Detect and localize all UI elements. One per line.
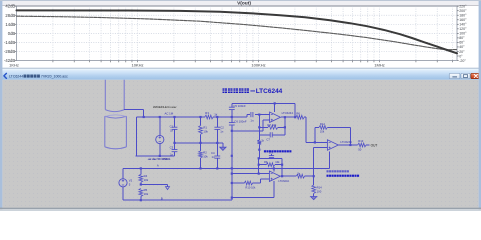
svg-text:100°: 100° — [459, 32, 467, 36]
annotation: differential to single-ended — [264, 150, 292, 152]
wire: top bus to C9 into U1 inverting input — [247, 114, 270, 118]
resistor R10 (U2 + input series) — [244, 181, 256, 189]
svg-text:1n: 1n — [170, 152, 174, 156]
svg-text:1MHz: 1MHz — [374, 63, 384, 68]
svg-text:10k: 10k — [203, 155, 208, 159]
capacitor C4 — [211, 143, 220, 169]
battery cell BT2 (lower cylinder) — [105, 115, 127, 149]
svg-text:50: 50 — [358, 147, 362, 151]
svg-text:220°: 220° — [459, 5, 467, 9]
wire: U2 non-inverting input — [253, 179, 270, 183]
svg-text:1n: 1n — [250, 118, 254, 122]
schematic title annotation (opamp LTC6244) — [223, 88, 283, 95]
wire: U2 inverting input bus — [231, 173, 270, 175]
battery cell BT1 (upper cylinder) — [105, 80, 124, 112]
resistor R1 — [199, 117, 209, 143]
svg-text:R9: R9 — [264, 160, 268, 164]
svg-text:1n: 1n — [211, 155, 215, 159]
wire: U1 output — [281, 116, 296, 118]
voltage source V2 — [119, 168, 133, 200]
svg-text:140°: 140° — [459, 23, 467, 27]
resistor R8 (bias to fb box) — [257, 138, 264, 158]
wire: U1 non-inverting bias — [231, 120, 270, 132]
svg-text:10k: 10k — [203, 129, 208, 133]
resistor R3 (series, top bus) — [205, 111, 218, 119]
svg-text:1n: 1n — [170, 129, 174, 133]
V1 value label (wavefile) — [153, 105, 177, 115]
svg-text:120°: 120° — [459, 27, 467, 31]
wire: U1 out to U3 inverting input — [304, 117, 327, 143]
voltage source V1 — [156, 117, 164, 156]
svg-text:180°: 180° — [459, 14, 467, 18]
resistor R9 (U2 feedback) — [264, 160, 280, 167]
capacitor C7 (U1 feedback) — [259, 132, 285, 141]
wire: R14 to ground — [313, 193, 315, 196]
svg-text:-28dB: -28dB — [4, 49, 15, 54]
svg-text:.ac dec 50 10MEG: .ac dec 50 10MEG — [148, 157, 171, 161]
svg-text:C3: C3 — [170, 146, 174, 150]
capacitor C6 100nF — [229, 120, 247, 157]
ground (output load) — [311, 197, 317, 200]
capacitor C3 — [170, 143, 178, 156]
resistor R11 (U2 output series) — [296, 171, 304, 178]
svg-text:R6: R6 — [296, 112, 300, 116]
op-amp U3 LTC6244 — [327, 140, 352, 150]
svg-text:1KHz: 1KHz — [9, 63, 19, 68]
svg-text:R7 10k: R7 10k — [267, 123, 276, 127]
wire: rail to R10 — [231, 182, 245, 184]
svg-text:80°: 80° — [459, 36, 465, 40]
op-amp U1 LTC6244 — [270, 111, 294, 123]
net label B on bottom bus — [161, 196, 163, 200]
svg-text:LTC6244: LTC6244 — [278, 179, 289, 183]
resistor R13 (output series) — [358, 139, 366, 151]
svg-text:14dB: 14dB — [5, 22, 15, 27]
svg-text:R13: R13 — [358, 139, 364, 143]
wire: bottom return bus — [123, 197, 274, 202]
svg-text:0°: 0° — [459, 54, 463, 58]
node OUT — [366, 144, 377, 148]
svg-text:20°: 20° — [459, 50, 465, 54]
wire: U2 output — [280, 175, 296, 177]
svg-text:200°: 200° — [459, 9, 467, 13]
vertical rail with decoupling caps — [231, 103, 233, 200]
node junctions on top bus — [143, 116, 233, 118]
svg-text:10k: 10k — [144, 178, 149, 182]
net label A on V- rail — [157, 164, 159, 168]
op-amp U2 LTC6244 — [269, 171, 289, 183]
svg-text:WAVEFILE=in.wav: WAVEFILE=in.wav — [153, 105, 177, 109]
svg-text:C7: C7 — [266, 138, 270, 142]
svg-text:-14dB: -14dB — [4, 40, 15, 45]
wire: U3 feedback — [315, 127, 352, 146]
resistor R12 (U3 feedback) — [319, 122, 327, 134]
annotation: single-ended output — [327, 170, 360, 177]
resistor R6 (U1 output series) — [296, 112, 304, 120]
wire: U3 output — [338, 144, 357, 146]
svg-text:A: A — [157, 164, 159, 168]
resistor R7 (U1 feedback) — [267, 123, 278, 129]
wire: V1 bottom to C3 node — [136, 155, 175, 157]
svg-text:R3: R3 — [205, 111, 209, 115]
svg-text:C6 100nF: C6 100nF — [234, 120, 247, 124]
svg-text:10k: 10k — [144, 192, 149, 196]
svg-text:160°: 160° — [459, 18, 467, 22]
wire: U1 feedback network — [258, 115, 286, 140]
svg-text:42dB: 42dB — [5, 4, 15, 9]
svg-text:LTC6244: LTC6244 — [340, 140, 352, 144]
spice directive .ac — [148, 157, 171, 161]
wire: U2 power pins — [273, 167, 275, 197]
wire: to summing node — [305, 175, 315, 177]
svg-text:40°: 40° — [459, 45, 465, 49]
wire: V- rail (long horizontal) — [123, 167, 330, 169]
svg-text:1n: 1n — [220, 129, 224, 133]
wire: U2 feedback box — [258, 157, 284, 177]
svg-text:LTC6244: LTC6244 — [256, 88, 283, 95]
svg-text:60°: 60° — [459, 41, 465, 45]
capacitor C5 100nF — [229, 104, 246, 110]
svg-text:R12: R12 — [320, 122, 325, 126]
svg-text:10k: 10k — [320, 130, 325, 134]
svg-text:7VR20_1000.asc: 7VR20_1000.asc — [41, 75, 68, 79]
capacitor C1 — [170, 117, 178, 143]
wire: supply rail to U1 — [232, 102, 295, 117]
svg-text:28dB: 28dB — [5, 13, 15, 18]
svg-text:LTC6244: LTC6244 — [282, 111, 294, 115]
svg-text:AC 1M: AC 1M — [165, 112, 174, 116]
capacitor C9 (input coupling) — [250, 112, 254, 122]
svg-text:100: 100 — [317, 189, 322, 193]
capacitor C2 — [214, 117, 224, 143]
svg-text:0dB: 0dB — [8, 31, 16, 36]
svg-text:LTC6244: LTC6244 — [9, 75, 23, 79]
ground (middle bus) — [220, 147, 226, 150]
wire: middle bus — [173, 142, 223, 147]
svg-text:-20°: -20° — [459, 59, 466, 63]
wire from battery to node IN — [124, 109, 144, 155]
svg-text:C5 100nF: C5 100nF — [233, 104, 246, 108]
wire: top input bus — [137, 116, 247, 118]
svg-text:10k: 10k — [275, 160, 280, 164]
svg-text:OUT: OUT — [371, 144, 378, 148]
svg-text:R10 10k: R10 10k — [245, 185, 256, 189]
wire: V- rail to U3 — [329, 152, 331, 169]
capacitor C8 (U2 feedback) — [269, 151, 274, 158]
wire: summing node riser to U3 + input — [314, 148, 328, 185]
resistor R4 (divider top) — [139, 168, 149, 185]
svg-text:100KHz: 100KHz — [251, 63, 265, 68]
svg-text:B: B — [161, 196, 163, 200]
resistor R5 (divider bottom) — [139, 188, 149, 200]
resistor R14 (load) — [312, 185, 322, 194]
resistor R2 — [199, 143, 209, 169]
svg-text:10KHz: 10KHz — [131, 63, 143, 68]
node A (divider tap) — [140, 183, 170, 189]
